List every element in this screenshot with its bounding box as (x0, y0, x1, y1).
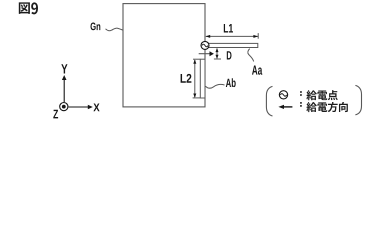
feed point (AC source symbol) (201, 41, 209, 49)
element Ab (vertical parasitic element) (200, 59, 205, 98)
Y axis arrow (62, 75, 67, 102)
legend feed direction arrow (278, 105, 292, 109)
legend text 給電点 (306, 90, 316, 100)
dimension L2 (double arrow + ticks) (193, 59, 201, 98)
label L1 (224, 24, 233, 33)
legend right bracket (355, 85, 361, 114)
label L2 (181, 74, 192, 83)
legend colon row2 (300, 102, 302, 107)
legend text 給電方向 (306, 102, 316, 112)
element Aa (horizontal radiating element) (205, 43, 258, 47)
legend feed point symbol (279, 91, 287, 99)
coordinate axes origin (Z out of page) (60, 103, 68, 111)
feed direction arrow (199, 51, 214, 56)
legend left bracket (266, 86, 272, 116)
legend colon row1 (300, 91, 302, 96)
ground plane Gn (rectangle) (123, 4, 205, 107)
dimension L1 (line, arrowheads, tick) (206, 33, 259, 39)
label X (93, 103, 99, 111)
label Aa + leader (248, 49, 262, 75)
label Y (61, 64, 67, 73)
label Z (53, 110, 58, 119)
leader squiggle Gn (106, 28, 124, 31)
X axis arrow (68, 105, 93, 110)
label Ab + leader (205, 78, 235, 88)
label Gn (90, 23, 100, 31)
label D (227, 51, 232, 59)
figure label 図9 (19, 2, 38, 14)
dimension D (double arrow + tick) (214, 48, 221, 59)
